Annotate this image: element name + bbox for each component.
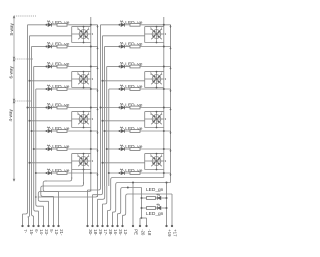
junction dot cluster feed L4 [29,162,31,164]
resistor RR3 [130,65,140,68]
resistor RL5 [57,106,67,109]
cluster loop wires [72,71,91,73]
wire row R1 right [140,24,171,26]
wire row R6 left [105,130,120,132]
junction dot row R3 [119,66,121,68]
return wire from cluster L4 left [71,170,73,180]
left connector pin dot 6 [47,225,49,227]
left connector wire pin2 [28,190,30,217]
junction dot bundle row L6 [31,130,33,132]
LED DR8 [121,171,124,174]
wire row L6 left [32,130,47,132]
vertical net wire L v2 [97,25,99,197]
wire row L1 right [67,24,98,26]
wire row R4 left [109,88,120,90]
wire row L3 left [34,66,47,68]
dimension arrowhead [13,57,15,59]
junction dot cluster feed L2 [29,80,31,82]
junction dot row L5 [46,107,48,109]
svg-text:3: 3 [165,159,167,163]
svg-text:+19: +19 [167,229,172,237]
bundle vertical wire R [100,25,102,186]
svg-text:3: 3 [92,32,94,36]
return wire from L v1 [40,190,91,192]
cluster loop wires [145,71,164,73]
svg-text:25-: 25- [118,229,123,236]
wire row R7 mid [125,148,130,150]
cluster diagonal spokes [78,29,88,39]
junction dot green bus bottom [141,217,143,219]
wire row R3 right [140,66,171,68]
wire green row 2 left [142,207,147,209]
junction dot row L8 [46,172,48,174]
LED DR2 [121,45,124,48]
bundle vertical wire R [108,89,110,186]
wire row R3 left [107,66,120,68]
junction dot row L7 [46,148,48,150]
wire row L4 left [36,88,47,90]
bundle vertical wire R [106,67,108,187]
wire row R8 mid [125,172,130,174]
resistor RL8 [57,172,67,175]
svg-text:7-: 7- [23,229,28,233]
cluster diagonal spokes [151,74,161,84]
junction dot v1 row L8 [90,172,92,174]
wire row L8 left [36,172,47,174]
middle connector wire pin4 [103,186,107,204]
wire row L6 mid [52,130,57,132]
dimension line [13,16,15,181]
PE pin dot [132,225,134,227]
cluster circle [152,115,161,124]
net stub row R7 [170,149,172,152]
wire row L4 mid [52,88,57,90]
junction dot row L6 [46,130,48,132]
svg-text:LED_gn: LED_gn [146,187,164,193]
svg-text:-18: -18 [147,229,152,236]
junction dot cluster feed R3 [102,120,104,122]
svg-text:4-way: 4-way [8,109,13,122]
svg-text:3: 3 [92,77,94,81]
wire row R2 right [140,46,171,48]
wire row R4 right [140,88,171,90]
wire row L1 left [28,24,47,26]
junction dot v1 row R4 [163,88,165,90]
svg-text:3: 3 [92,159,94,163]
wire row R8 left [109,172,120,174]
bundle cluster-feed vertical L [29,36,31,190]
cluster feed wire R4 [103,162,145,164]
cluster loop wires [145,26,164,28]
junction dot PE top [132,182,134,184]
right pin dot +19 [165,225,167,227]
wire row L7 right [67,148,98,150]
resistor Rg1 [147,197,156,200]
wire row L5 right [67,107,98,109]
cluster diagonal spokes [78,74,88,84]
LED DL1 [48,23,51,26]
wire row R6 mid [125,130,130,132]
wire row L5 left [28,107,47,109]
junction dot v1 row R5 [163,107,165,109]
dimension extension line y101 [13,100,31,102]
wire row R5 mid [125,107,130,109]
cluster feed wire L2 [30,80,72,82]
dimension arrowhead [13,99,15,101]
LED green 2 [158,206,161,209]
cluster junction dots [156,26,158,28]
LED DL3 [48,65,51,68]
cluster junction dots [83,71,85,73]
svg-text:+17: +17 [172,229,177,237]
middle connector pin dot 5 [106,225,108,227]
wire row L3 mid [52,66,57,68]
svg-text:30-: 30- [88,229,93,236]
cluster LED chips [80,157,83,160]
left connector wire pin3 [32,190,34,216]
svg-text:LED_gn: LED_gn [146,211,164,217]
cluster feed wire R1 [103,35,145,37]
resistor RR7 [130,148,140,151]
net stub row L1 [97,25,99,28]
svg-text:18-: 18- [93,229,98,236]
green left bus wire [141,188,143,219]
cluster diagonal spokes [151,156,161,166]
resistor RR4 [130,88,140,91]
middle connector pin dot 3 [96,225,98,227]
cluster loop wires [72,111,91,113]
LED DL7 [48,147,51,150]
junction dot bundle row R6 [104,130,106,132]
resistor RR6 [130,130,140,133]
wire row R1 mid [125,24,130,26]
left connector wire pin6 [38,199,48,201]
junction dot v1 row R7 [163,148,165,150]
cluster feed wire L3 [30,120,72,122]
junction dot bundle row R7 [106,148,108,150]
cluster LED chips [80,30,83,33]
net stub row L3 [97,67,99,70]
dimension extension line y59 [13,58,34,60]
dimension arrowhead [13,59,15,61]
junction dot bundle row L8 [35,172,37,174]
svg-text:5-: 5- [49,229,54,233]
junction dot return-bundle [35,196,37,198]
junction dot row L3 [46,66,48,68]
vertical net wire L v1 [90,17,92,192]
junction dot row R7 [119,148,121,150]
cluster circle [79,115,88,124]
cluster circle [152,75,161,84]
resistor RL2 [57,45,67,48]
wire green row 1 right [161,197,166,199]
junction dot row R1 [119,24,121,26]
junction dot row R6 [119,130,121,132]
junction dot bundle row R5 [100,107,102,109]
LED DR6 [121,129,124,132]
cluster feed wire R3 [103,120,145,122]
junction dot v1 row R8 [163,172,165,174]
cluster feed wire L4 [30,162,72,164]
junction dot green right bus top [166,182,168,184]
svg-text:15-: 15- [29,229,34,236]
cluster LED chips [153,75,156,78]
junction dot on y187.5 wire [127,187,129,189]
svg-text:29-: 29- [98,229,103,236]
LED DR7 [121,147,124,150]
wire row L2 mid [52,46,57,48]
left connector pin dot 1 [21,225,23,227]
wire row L7 mid [52,148,57,150]
cluster diagonal spokes [151,29,161,39]
wire green row 2 mid [156,207,158,209]
middle connector pin dot 2 [91,225,93,227]
junction dot green row 2 right [166,207,168,209]
wire row R7 left [107,148,120,150]
left connector pin dot 2 [27,225,29,227]
resistor RR5 [130,106,140,109]
resistor RL4 [57,88,67,91]
net stub row L2 [97,47,99,50]
green right bus wire [166,183,168,227]
bundle vertical wire L [33,67,35,191]
bundle vertical wire R [104,47,106,187]
wire row L8 right [67,172,98,174]
middle connector wire pin3 [98,186,105,199]
wire row L2 right [67,46,98,48]
cluster feed wire L1 [30,35,72,37]
left connector wire pin8 [43,190,58,192]
svg-text:8-way: 8-way [9,23,14,36]
vertical net wire R v2 [170,25,172,183]
right pin wire +17 [171,194,173,226]
left connector wire pin5 [36,190,44,206]
wire row L4 right [67,88,98,90]
left connector pin dot 7 [52,225,54,227]
net stub row R5 [170,108,172,111]
net stub row R1 [170,25,172,28]
left connector pin dot 3 [32,225,34,227]
left connector wire pin4 [34,190,39,211]
svg-text:16-: 16- [113,229,118,236]
svg-text:17-: 17- [103,229,108,236]
junction dot row L4 [46,88,48,90]
net stub row R6 [170,131,172,134]
junction dot cluster feed L3 [29,120,31,122]
wire row R8 right [140,172,171,174]
junction dot v1 row L7 [90,148,92,150]
bundle vertical wire L [31,47,33,191]
junction dot green row 1 [141,197,143,199]
net stub row R2 [170,47,172,50]
return wire y187.5 [118,188,142,214]
net stub row L8 [97,173,99,176]
wire green row 1 left [142,197,147,199]
net stub row R4 [170,89,172,92]
LED DR5 [121,106,124,109]
net stub row L6 [97,131,99,134]
dimension arrowhead [13,16,15,18]
wire row L2 left [32,46,47,48]
LED DL6 [48,129,51,132]
resistor RR2 [130,45,140,48]
left connector wire pin1 [23,190,28,214]
junction dot v1 row R2 [163,46,165,48]
wire row R1 left [101,24,120,26]
wire row L8 mid [52,172,57,174]
svg-text:14-: 14- [39,229,44,236]
resistor Rg2 [147,207,156,210]
dimension arrowhead [13,101,15,103]
cluster junction dots [156,153,158,155]
wire row R5 right [140,107,171,109]
resistor RR1 [130,23,140,26]
PE wire [132,183,134,227]
wire row L3 right [67,66,98,68]
cluster LED chips [153,30,156,33]
cluster circle [152,157,161,166]
svg-text:3: 3 [165,77,167,81]
cluster circle [79,157,88,166]
LED DR1 [121,23,124,26]
LED DL5 [48,106,51,109]
junction dot v1 row R1 [163,24,165,26]
dimension extension line y16 [14,15,36,17]
resistor RL7 [57,148,67,151]
left connector wire pin7 [41,194,54,196]
net stub row R8 [170,173,172,176]
green pin wire 20 [139,218,141,226]
wire green row 2 right [161,207,166,209]
green pin wire 18 [146,218,148,226]
junction dot row L2 [46,46,48,48]
svg-text:21-: 21- [59,229,64,236]
junction dot bundle row R8 [108,172,110,174]
LED green 1 [158,196,161,199]
wire row R2 mid [125,46,130,48]
cluster loop wires [72,153,91,155]
return wire y177.5 [108,178,164,211]
cluster feed wire R2 [103,80,145,82]
vertical net wire R v1 [163,17,165,178]
svg-text:13-: 13- [54,229,59,236]
LED DL4 [48,87,51,90]
cluster loop wires [145,153,164,155]
cluster junction dots [83,153,85,155]
junction dot v1 row L2 [90,46,92,48]
wire row L6 right [67,130,98,132]
left connector pin dot 5 [42,225,44,227]
resistor RL6 [57,130,67,133]
bundle cluster-feed vertical R [102,36,104,186]
wire row L1 mid [52,24,57,26]
wire row R3 mid [125,66,130,68]
junction dot bundle row L7 [33,148,35,150]
svg-text:6-: 6- [34,229,39,233]
cluster LED chips [153,157,156,160]
svg-text:3: 3 [165,117,167,121]
cluster junction dots [156,71,158,73]
LED DR3 [121,65,124,68]
resistor RL1 [57,23,67,26]
cluster diagonal spokes [78,156,88,166]
middle connector wire pin1 [88,186,101,190]
green pin dot 20 [139,225,141,227]
svg-text:28-: 28- [108,229,113,236]
LED DL2 [48,45,51,48]
cluster circle [79,30,88,39]
junction dot green row 1 right [166,197,168,199]
wire row R7 right [140,148,171,150]
right pin dot +17 [171,225,173,227]
resistor RL3 [57,65,67,68]
LED DL8 [48,171,51,174]
junction dot v1 row L1 [90,24,92,26]
return wire y194 [123,194,173,215]
cluster circle [152,30,161,39]
svg-text:PE: PE [133,229,138,235]
svg-text:3: 3 [92,117,94,121]
svg-text:23-: 23- [44,229,49,236]
svg-text:3: 3 [165,32,167,36]
cluster LED chips [80,75,83,78]
return wire from L v2 [38,195,98,197]
junction dot v1 row L6 [90,130,92,132]
cluster junction dots [83,111,85,113]
cluster diagonal spokes [151,114,161,124]
cluster LED chips [80,115,83,118]
svg-text:6-way: 6-way [9,66,14,79]
junction dot v1 row L3 [90,66,92,68]
left connector pin dot 8 [57,225,59,227]
junction dot v1 row R3 [163,66,165,68]
svg-text:13-: 13- [123,229,128,236]
return wire from cluster L4 bottom [83,170,85,185]
LED DR4 [121,87,124,90]
junction dot green row 2 [141,207,143,209]
junction dot v1 row L4 [90,88,92,90]
cluster diagonal spokes [78,114,88,124]
wire green row 1 mid [156,197,158,199]
wire row R5 left [101,107,120,109]
resistor RR8 [130,172,140,175]
dimension arrowhead [13,179,15,181]
green pin dot 18 [145,225,147,227]
middle connector pin dot 8 [121,225,123,227]
middle connector pin dot 1 [86,225,88,227]
cluster LED chips [153,115,156,118]
return wire y182.5 [113,183,171,213]
wire row R4 mid [125,88,130,90]
middle connector wire pin2 [93,186,103,195]
middle connector pin dot 6 [111,225,113,227]
wire row R2 left [105,46,120,48]
svg-text:-20: -20 [140,229,145,236]
junction dot v1 row L5 [90,107,92,109]
cluster junction dots [83,26,85,28]
junction dot row L1 [46,24,48,26]
junction dot cluster feed R2 [102,80,104,82]
wire row R6 right [140,130,171,132]
cluster circle [79,75,88,84]
net stub row L5 [97,108,99,111]
junction dot v1 row R6 [163,130,165,132]
junction dot row R2 [119,46,121,48]
middle connector pin dot 7 [116,225,118,227]
net stub row R3 [170,67,172,70]
junction dot row R5 [119,107,121,109]
junction dot row R4 [119,88,121,90]
